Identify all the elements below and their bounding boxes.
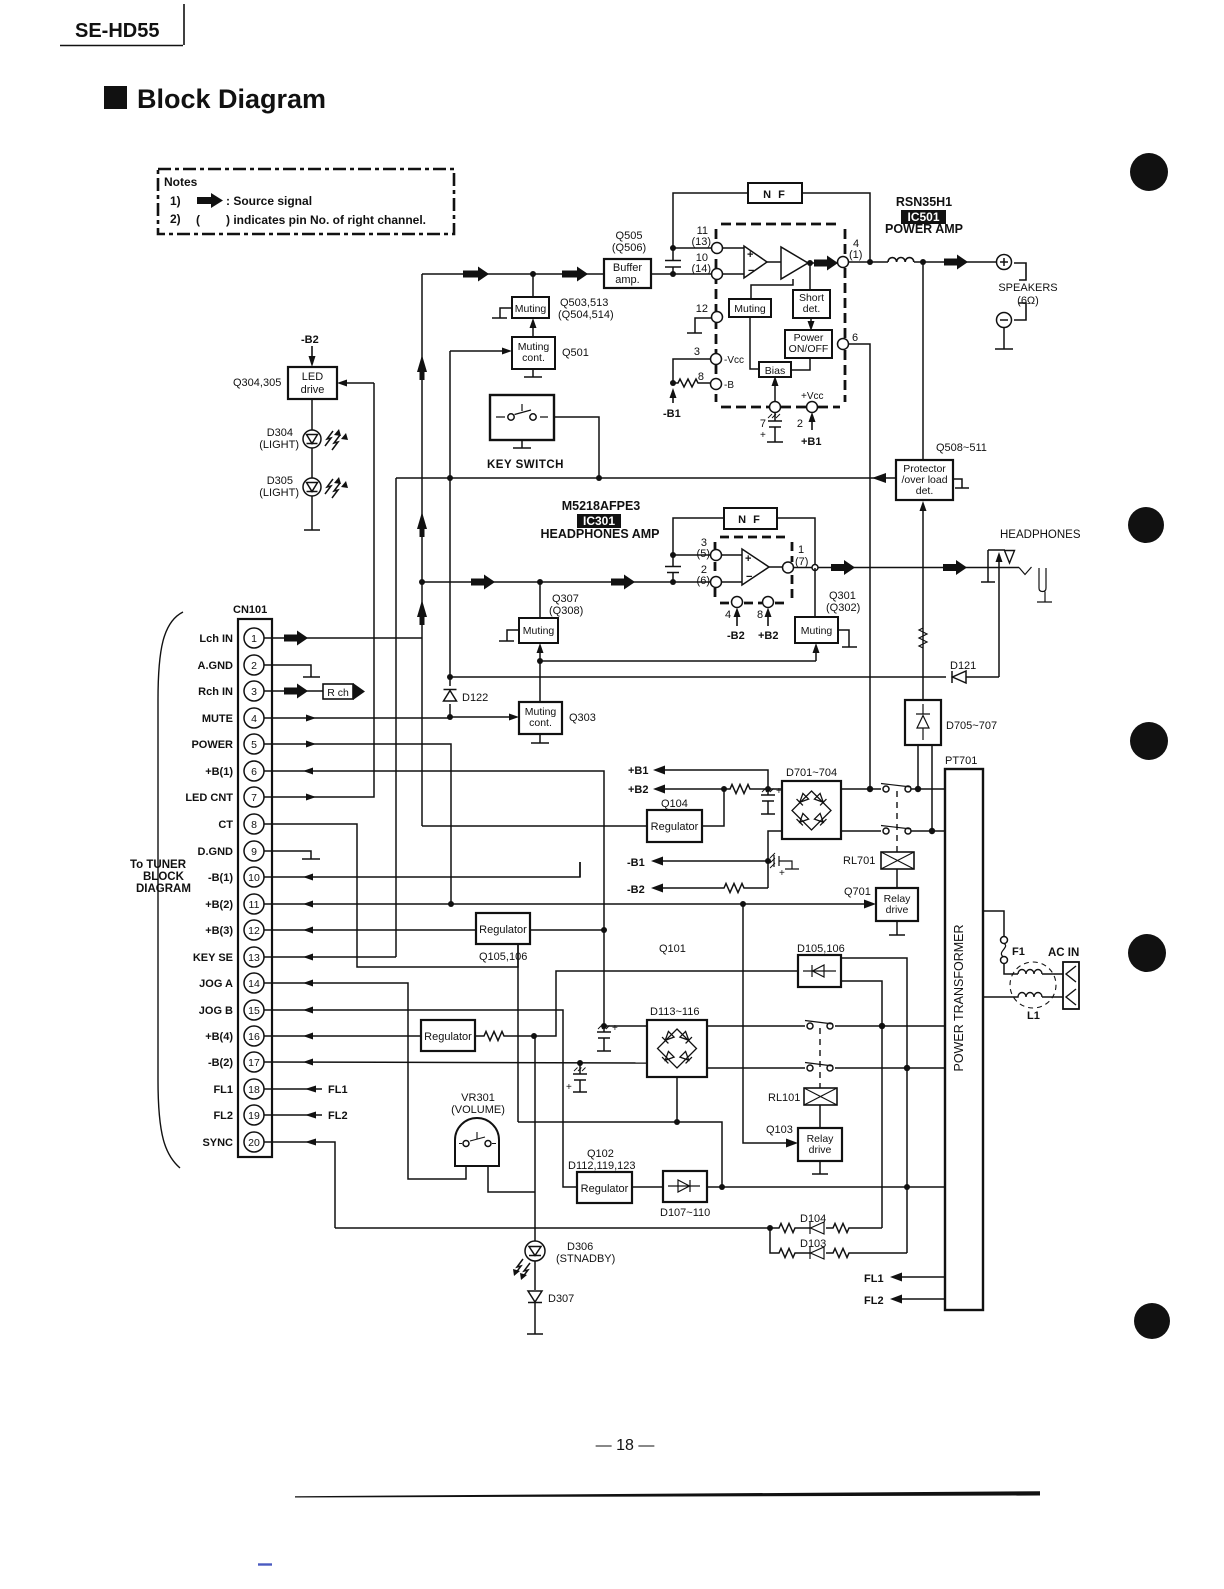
svg-text:7: 7 xyxy=(760,418,766,430)
+B2 feed arrow pin8 xyxy=(767,614,769,626)
FL2 output arrow xyxy=(864,1295,884,1307)
node dot cap tap xyxy=(577,1060,583,1066)
svg-text:Regulator: Regulator xyxy=(424,1031,472,1043)
wire mute bus into Q501 xyxy=(450,350,504,352)
diode D122 xyxy=(444,690,457,702)
label Q103 xyxy=(766,1124,793,1136)
svg-text:(5): (5) xyxy=(697,548,710,560)
line filter L1 dashed circle xyxy=(1010,962,1056,1008)
wire pin11 xyxy=(673,247,712,249)
D705 pins down to relay lines xyxy=(918,745,932,831)
diode D121 xyxy=(952,671,966,683)
svg-text:det.: det. xyxy=(803,303,821,315)
svg-text:PT701: PT701 xyxy=(945,755,977,767)
smoothing cap on +B2 node xyxy=(761,789,775,814)
node dot key switch join xyxy=(596,475,602,481)
wire RL701 to relay drive xyxy=(896,869,898,888)
node dot relay drive tap xyxy=(740,901,746,907)
wire +B(1) bus node to bridge top line xyxy=(604,1025,647,1027)
switch contact bottom xyxy=(883,828,889,834)
L1 top coil xyxy=(1018,970,1063,975)
svg-text:-B(2): -B(2) xyxy=(208,1057,233,1069)
svg-text:amp.: amp. xyxy=(615,274,639,286)
pin 3 labels xyxy=(697,537,710,560)
thick up arrow 2 on Lch bus xyxy=(417,512,427,537)
wire NF node down into muting Q301 xyxy=(814,568,816,617)
node dot after coil xyxy=(920,259,926,265)
svg-text:3: 3 xyxy=(251,686,257,698)
arrow short det to power on/off xyxy=(810,318,812,323)
svg-text:Rch IN: Rch IN xyxy=(198,686,233,698)
VR301 contacts xyxy=(459,1132,496,1144)
source arrow on hp line 2 xyxy=(611,575,635,590)
relay coil RL701 xyxy=(881,852,914,869)
svg-text:D304: D304 xyxy=(267,427,293,439)
svg-text:SYNC: SYNC xyxy=(202,1137,233,1149)
pin 2 labels xyxy=(697,564,710,587)
svg-text:: Source signal: : Source signal xyxy=(226,194,312,208)
svg-text:Muting: Muting xyxy=(801,625,833,637)
source arrow on hp line 1 xyxy=(471,575,495,590)
wire muting top to op-amp xyxy=(751,279,793,299)
wire NF left to pin11 xyxy=(673,193,748,248)
svg-text:cont.: cont. xyxy=(529,717,552,729)
svg-text:(6): (6) xyxy=(697,575,710,587)
speaker + terminal xyxy=(997,255,1012,270)
pin13 KEY SE wire xyxy=(264,956,396,957)
bridge D113 top output to switch xyxy=(707,1025,945,1027)
source arrow to speakers xyxy=(944,255,968,270)
svg-text:6: 6 xyxy=(852,332,858,344)
label Q304,305 xyxy=(233,377,281,389)
pin1 source arrow xyxy=(284,631,308,646)
svg-text:BLOCK: BLOCK xyxy=(143,871,185,883)
NF box (IC301 feedback) xyxy=(724,508,777,529)
inductor L501 xyxy=(888,258,914,263)
svg-text:D305: D305 xyxy=(267,475,293,487)
source arrow after op-amp xyxy=(814,256,838,271)
jack switch spring contact xyxy=(1019,567,1032,575)
pin 10 labels xyxy=(691,252,711,275)
SPEAKERS label xyxy=(998,282,1057,307)
diode D104 xyxy=(810,1222,824,1234)
relay actuator dashed link xyxy=(896,791,898,852)
svg-text:2: 2 xyxy=(251,660,257,672)
svg-text:HEADPHONES: HEADPHONES xyxy=(1000,529,1081,541)
CN101 connector body xyxy=(238,619,272,1157)
wire relay tap down into Q103 xyxy=(743,904,790,1143)
svg-text:+: + xyxy=(745,553,751,565)
label D113~116 xyxy=(650,1006,699,1018)
ground below speaker - xyxy=(995,328,1013,350)
wire muting bottom to bias xyxy=(750,317,759,369)
switch contact top xyxy=(883,786,889,792)
svg-text:6: 6 xyxy=(251,766,257,778)
svg-text:8: 8 xyxy=(698,371,704,383)
blue margin tick xyxy=(258,1563,272,1565)
svg-text:+B(1): +B(1) xyxy=(205,766,233,778)
IC501 dashed package border xyxy=(716,224,845,407)
svg-text:FL1: FL1 xyxy=(864,1273,884,1285)
D104 branch: resistor diode resistor xyxy=(770,1224,882,1233)
cap on +B(1) bus to ground xyxy=(601,1023,607,1029)
node dot pin6-line join xyxy=(867,786,873,792)
SYNC / standby line xyxy=(335,1227,770,1229)
svg-text:RSN35H1: RSN35H1 xyxy=(896,195,952,209)
svg-text:L1: L1 xyxy=(1027,1010,1040,1022)
svg-text:Regulator: Regulator xyxy=(479,924,527,936)
svg-text:KEY SE: KEY SE xyxy=(193,952,233,964)
volume encoder VR301 xyxy=(455,1118,499,1166)
registration mark dot 1 xyxy=(1130,153,1168,191)
relay coil RL101 xyxy=(804,1088,837,1105)
-B2 feed arrow pin4 xyxy=(736,614,738,626)
coupling capacitor C301 xyxy=(665,557,681,582)
pin9 D.GND ground xyxy=(264,851,320,859)
standby LED vertical xyxy=(527,1036,543,1334)
svg-text:(: ( xyxy=(196,213,200,227)
svg-text:det.: det. xyxy=(916,485,934,497)
svg-text:+B2: +B2 xyxy=(628,784,649,796)
svg-text:(7): (7) xyxy=(795,556,808,568)
wire RL101 to relay drive Q103 xyxy=(819,1105,821,1128)
svg-text:-B1: -B1 xyxy=(627,857,645,869)
wire NF right down to pin1 node xyxy=(777,518,815,568)
svg-text:D122: D122 xyxy=(462,692,488,704)
svg-text:JOG A: JOG A xyxy=(199,978,233,990)
svg-text:+: + xyxy=(612,1023,618,1034)
speaker brackets xyxy=(1014,263,1026,320)
svg-text:VR301: VR301 xyxy=(461,1092,495,1104)
svg-text:+B(3): +B(3) xyxy=(205,925,233,937)
svg-text:7: 7 xyxy=(251,792,257,804)
svg-text:8: 8 xyxy=(757,609,763,621)
pin12 +B(3) wire xyxy=(264,929,476,931)
svg-text:−: − xyxy=(748,265,754,277)
wire pin 3(5) xyxy=(673,554,711,556)
wire bridge left pin down xyxy=(768,831,782,888)
svg-text:FL1: FL1 xyxy=(213,1084,233,1096)
wire Lch input line to buffer xyxy=(422,273,604,275)
svg-text:D112,119,123: D112,119,123 xyxy=(568,1160,635,1172)
svg-text:(14): (14) xyxy=(691,263,711,275)
protector bottom up-arrow wire xyxy=(922,507,924,700)
node dot D705b join xyxy=(929,828,935,834)
relay switch line top xyxy=(841,788,945,790)
speaker - terminal xyxy=(997,313,1012,328)
svg-text:N F: N F xyxy=(763,189,787,201)
coupling capacitor C501 xyxy=(665,250,681,274)
svg-text:D105,106: D105,106 xyxy=(797,943,845,955)
label PT701 xyxy=(945,755,977,767)
pin3 Rch IN wire xyxy=(264,690,323,692)
labels VR301 (VOLUME) xyxy=(451,1092,505,1116)
node dot -B1 xyxy=(670,380,676,386)
IC301 dashed package border xyxy=(715,537,792,603)
svg-text:+Vcc: +Vcc xyxy=(801,391,824,402)
label Q503,513 (Q504,514) xyxy=(558,297,614,321)
pin 6 circle xyxy=(838,339,849,350)
svg-text:10: 10 xyxy=(248,872,260,884)
pin 7 circle xyxy=(770,402,781,413)
pin 2(6) circle xyxy=(711,577,722,588)
LED D305 xyxy=(303,478,321,496)
hp output line xyxy=(818,567,1019,569)
node dot regulator tap xyxy=(721,786,727,792)
pin labels 4 and 8 xyxy=(725,609,763,621)
svg-text:+: + xyxy=(566,1082,572,1093)
svg-text:A.GND: A.GND xyxy=(198,660,234,672)
label Q104 xyxy=(661,798,688,810)
node dot mute drive xyxy=(537,658,543,664)
wire key switch to key-se line xyxy=(554,417,599,478)
pin2 A.GND ground xyxy=(264,665,320,677)
muting block inside IC501 xyxy=(729,299,771,317)
wire led-cnt into LED drive xyxy=(345,382,374,384)
page number xyxy=(596,1437,655,1454)
svg-text:-B2: -B2 xyxy=(727,630,745,642)
registration mark dot 4 xyxy=(1128,934,1166,972)
svg-text:Buffer: Buffer xyxy=(613,262,642,274)
relay drive block Q103 xyxy=(798,1128,842,1161)
key switch contacts xyxy=(496,404,548,417)
svg-text:SE-HD55: SE-HD55 xyxy=(75,20,159,42)
svg-text:F1: F1 xyxy=(1012,946,1025,958)
pin1 Lch IN wire xyxy=(264,637,422,639)
headphone jack feed from D121 xyxy=(998,559,1000,677)
svg-text:Notes: Notes xyxy=(164,175,198,189)
pin 4 circle xyxy=(838,257,849,268)
node dot bridge minus xyxy=(765,786,771,792)
muting block Q307 xyxy=(519,618,558,643)
pin 12 circle and ground xyxy=(687,318,711,333)
svg-text:POWER: POWER xyxy=(191,739,233,751)
svg-text:+B1: +B1 xyxy=(628,765,649,777)
R ch box xyxy=(323,684,353,699)
svg-text:POWER TRANSFORMER: POWER TRANSFORMER xyxy=(952,925,966,1072)
key switch ground xyxy=(513,440,531,448)
D305 labels xyxy=(259,475,299,499)
ground left of muting Q307 xyxy=(499,630,519,641)
svg-text:-B1: -B1 xyxy=(663,408,681,420)
svg-text:Q105,106: Q105,106 xyxy=(479,951,527,963)
svg-text:drive: drive xyxy=(301,384,325,396)
wire speaker node down to protector xyxy=(922,262,924,460)
mute drive line to right muting xyxy=(540,660,816,662)
label RL701 xyxy=(843,855,875,867)
node dot Q102 output join xyxy=(719,1184,725,1190)
wire op-amp output down to short det xyxy=(809,263,811,290)
AC IN label xyxy=(1048,947,1079,959)
POWER TRANSFORMER vertical text xyxy=(952,925,966,1072)
regulator Q105 bottom feed xyxy=(517,944,519,1122)
pin 2 circle +Vcc xyxy=(807,402,818,413)
svg-text:+: + xyxy=(779,868,785,879)
svg-text:+B(2): +B(2) xyxy=(205,899,233,911)
pin 10 circle xyxy=(712,269,723,280)
svg-text:Muting: Muting xyxy=(523,625,555,637)
mute line from protector to left xyxy=(396,477,896,479)
svg-text:(Q302): (Q302) xyxy=(826,602,860,614)
pin numbers xyxy=(248,633,260,1149)
tuner-side brace xyxy=(158,612,183,1168)
svg-text:(STNADBY): (STNADBY) xyxy=(556,1253,615,1265)
svg-text:8: 8 xyxy=(251,819,257,831)
regulator block Q104 xyxy=(647,810,702,842)
svg-text:Q508~511: Q508~511 xyxy=(936,442,987,454)
ground below muting cont Q501 xyxy=(524,369,542,377)
svg-text:+: + xyxy=(760,430,766,441)
D304 labels xyxy=(259,427,299,451)
resistor after regulator xyxy=(475,1032,534,1041)
arrow into relay drive Q701 xyxy=(864,900,876,909)
svg-text:CN101: CN101 xyxy=(233,604,267,616)
svg-text:-B2: -B2 xyxy=(627,884,645,896)
hp signal wire to pin 2(6) xyxy=(422,581,711,583)
key switch block xyxy=(490,395,554,440)
op-amp U301 xyxy=(742,549,769,585)
label Q505 (Q506) xyxy=(612,230,646,254)
svg-text:4: 4 xyxy=(251,713,257,725)
wire buffer output to IC501 pins xyxy=(651,273,712,275)
diode D103 xyxy=(810,1247,824,1259)
node dot on buffer output xyxy=(670,271,676,277)
diode D307 xyxy=(528,1291,542,1303)
svg-text:(LIGHT): (LIGHT) xyxy=(259,487,299,499)
fuse F1 xyxy=(983,911,1004,936)
wire hp node down to muting xyxy=(539,582,541,618)
-B2 feed arrow to LED drive xyxy=(301,334,319,346)
wire NF right down to output node xyxy=(802,193,870,262)
svg-text:D307: D307 xyxy=(548,1293,574,1305)
svg-text:Bias: Bias xyxy=(765,365,785,377)
node dot cap junction xyxy=(670,579,676,585)
svg-text:M5218AFPE3: M5218AFPE3 xyxy=(562,499,641,513)
pin 3 circle -Vcc xyxy=(673,359,711,383)
svg-text:FL2: FL2 xyxy=(864,1295,884,1307)
D304 light rays xyxy=(325,431,340,450)
HEADPHONES label xyxy=(1000,529,1081,541)
IC301 part labels xyxy=(541,499,660,541)
svg-text:-Vcc: -Vcc xyxy=(724,355,744,366)
svg-text:(Q504,514): (Q504,514) xyxy=(558,309,614,321)
resistor on +B2 xyxy=(724,785,768,794)
pin15 JOG B wire xyxy=(264,1010,577,1187)
FL1 output arrow xyxy=(864,1273,884,1285)
svg-text:1: 1 xyxy=(798,544,804,556)
diode block D105,106 xyxy=(798,955,841,987)
IC501 part labels xyxy=(885,195,963,236)
svg-text:To TUNER: To TUNER xyxy=(130,859,187,871)
svg-text:JOG B: JOG B xyxy=(199,1005,233,1017)
registration mark dot 2 xyxy=(1128,507,1164,543)
svg-text:ON/OFF: ON/OFF xyxy=(789,343,829,355)
B-mute long line to D121 xyxy=(450,676,999,678)
pin16 +B(4) wire xyxy=(264,1035,421,1037)
pin8 CT wire xyxy=(264,824,518,967)
svg-text:RL701: RL701 xyxy=(843,855,875,867)
node dot pin11 wire xyxy=(670,245,676,251)
pin3 source arrow xyxy=(284,684,308,699)
diode block D705~707 xyxy=(905,700,941,745)
D105 output stub upper xyxy=(841,958,907,1253)
pin 4 labels xyxy=(849,238,862,261)
node dot D103 riser join xyxy=(904,1184,910,1190)
muting block Q301 xyxy=(795,617,838,643)
node dot on regulator feed line xyxy=(674,1119,680,1125)
svg-text:2: 2 xyxy=(797,418,803,430)
wire to Q101 line xyxy=(534,971,798,1036)
source arrow on Lch line 1 xyxy=(463,267,489,282)
svg-text:(Q308): (Q308) xyxy=(549,605,583,617)
header model label SE-HD55 xyxy=(75,20,159,42)
node dot on input line xyxy=(530,271,536,277)
svg-text:Q104: Q104 xyxy=(661,798,688,810)
D306 light rays xyxy=(515,1259,530,1278)
muting cont block Q501 xyxy=(512,337,555,369)
pin11 +B(2) wire to relay drive xyxy=(264,903,868,905)
svg-text:5: 5 xyxy=(251,739,257,751)
label Q508~511 xyxy=(936,442,987,454)
pin10 -B(1) wire xyxy=(264,862,580,877)
svg-text:3: 3 xyxy=(694,346,700,358)
cap on -B(2) line to ground xyxy=(573,1063,587,1092)
source arrow hp out 1 xyxy=(831,560,855,575)
svg-text:D701~704: D701~704 xyxy=(786,767,837,779)
cap on -B1 to ground xyxy=(774,855,799,869)
D305 light rays xyxy=(325,479,340,498)
regulator block Q102 xyxy=(577,1172,632,1203)
label D701~704 xyxy=(786,767,837,779)
-B1 feed arrow xyxy=(672,396,674,403)
svg-text:HEADPHONES AMP: HEADPHONES AMP xyxy=(541,527,660,541)
thick up arrow 3 on Lch bus xyxy=(417,600,427,625)
svg-text:cont.: cont. xyxy=(522,352,545,364)
key-se vertical to pin13 xyxy=(395,478,397,956)
output node dot xyxy=(807,260,813,266)
svg-text:Regulator: Regulator xyxy=(581,1183,629,1195)
Lch vertical bus xyxy=(421,274,423,826)
pin 8 circle -B with resistor xyxy=(711,379,722,390)
svg-text:4: 4 xyxy=(725,609,731,621)
bottom rule (tapered) xyxy=(295,1491,1040,1497)
svg-text:(6Ω): (6Ω) xyxy=(1017,295,1039,307)
svg-text:— 18 —: — 18 — xyxy=(596,1437,655,1454)
VR301 right pin wire xyxy=(488,1166,535,1192)
label Q301 (Q302) xyxy=(826,590,860,614)
registration mark dot 5 xyxy=(1134,1303,1170,1339)
regulator block Q105,106 xyxy=(476,913,530,944)
node dot B-mute line xyxy=(447,674,453,680)
svg-text:(LIGHT): (LIGHT) xyxy=(259,439,299,451)
svg-text:Q701: Q701 xyxy=(844,886,871,898)
pin 4 circle xyxy=(732,597,743,608)
LED D306 xyxy=(525,1241,545,1261)
svg-text:R ch: R ch xyxy=(327,687,349,699)
headphone jack symbol (plug) xyxy=(981,550,1005,582)
svg-text:SPEAKERS: SPEAKERS xyxy=(998,282,1057,294)
switch contact top (RL101) xyxy=(807,1023,813,1029)
svg-text:D107~110: D107~110 xyxy=(660,1207,710,1219)
relay drive block Q701 xyxy=(876,888,918,921)
notes source-signal arrow glyph xyxy=(197,193,223,208)
node dot D705 join xyxy=(915,786,921,792)
svg-text:1): 1) xyxy=(170,194,181,208)
bridge rectifier D113-116 xyxy=(647,1020,707,1077)
+B2 net label arrow xyxy=(628,784,649,796)
ground below Q303 xyxy=(531,734,549,743)
node dot mute/diode junction xyxy=(447,714,453,720)
